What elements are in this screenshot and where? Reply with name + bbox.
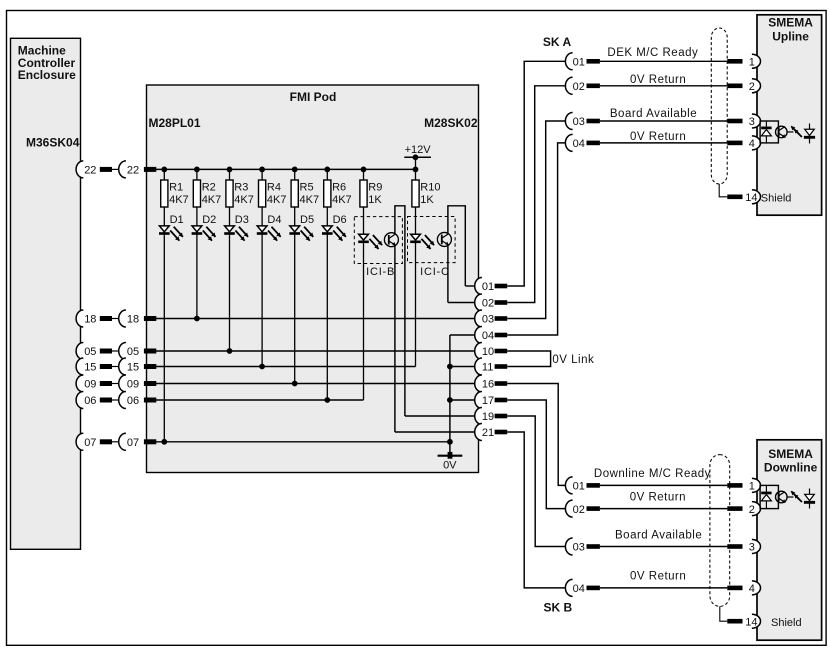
svg-text:14: 14 [745,192,757,204]
svg-text:D1: D1 [170,214,184,226]
svg-text:Upline: Upline [772,30,809,44]
svg-text:D4: D4 [267,214,281,226]
svg-text:R4: R4 [267,181,281,193]
svg-text:07: 07 [84,437,96,449]
svg-text:0V Return: 0V Return [630,491,686,503]
svg-text:SK A: SK A [543,35,572,49]
svg-text:07: 07 [127,437,139,449]
svg-text:R1: R1 [169,181,183,193]
svg-text:04: 04 [573,138,585,150]
svg-text:14: 14 [745,616,757,628]
svg-text:05: 05 [84,346,96,358]
svg-text:M36SK04: M36SK04 [26,135,80,149]
svg-text:4K7: 4K7 [267,194,287,206]
svg-text:0V: 0V [443,460,457,472]
svg-text:0V Link: 0V Link [552,354,594,366]
svg-text:09: 09 [84,379,96,391]
svg-text:D2: D2 [202,214,216,226]
svg-text:+12V: +12V [405,144,432,156]
svg-text:SMEMA: SMEMA [768,16,813,30]
svg-text:R3: R3 [234,181,248,193]
svg-text:3: 3 [749,116,755,128]
svg-text:03: 03 [573,116,585,128]
svg-text:01: 01 [482,281,494,293]
svg-text:02: 02 [573,504,585,516]
svg-text:22: 22 [127,165,139,177]
svg-text:05: 05 [127,346,139,358]
svg-text:M28SK02: M28SK02 [424,116,478,130]
svg-text:ICI-B: ICI-B [366,266,395,278]
svg-text:09: 09 [127,379,139,391]
svg-text:04: 04 [573,583,585,595]
svg-text:R5: R5 [300,181,314,193]
svg-text:DEK M/C Ready: DEK M/C Ready [607,47,698,59]
svg-text:2: 2 [749,504,755,516]
svg-text:D3: D3 [235,214,249,226]
svg-text:11: 11 [482,362,493,374]
svg-text:15: 15 [84,362,96,374]
svg-text:Shield: Shield [761,192,792,204]
svg-text:03: 03 [482,314,494,326]
svg-text:01: 01 [573,57,585,69]
svg-text:10: 10 [482,346,494,358]
svg-text:1: 1 [749,481,755,493]
svg-text:Board Available: Board Available [610,108,697,120]
svg-text:1: 1 [749,57,755,69]
svg-text:0V Return: 0V Return [630,571,686,583]
svg-text:01: 01 [573,481,585,493]
svg-text:R10: R10 [420,181,440,193]
svg-text:SMEMA: SMEMA [768,447,813,461]
svg-text:R2: R2 [202,181,216,193]
svg-text:06: 06 [84,395,96,407]
svg-text:1K: 1K [420,194,434,206]
svg-text:0V Return: 0V Return [630,74,686,86]
svg-text:06: 06 [127,395,139,407]
svg-text:21: 21 [482,427,494,439]
svg-text:15: 15 [127,362,139,374]
svg-text:2: 2 [749,81,755,93]
svg-text:04: 04 [482,330,494,342]
svg-text:16: 16 [482,379,494,391]
svg-text:4K7: 4K7 [234,194,254,206]
svg-text:1K: 1K [368,194,382,206]
svg-text:Downline: Downline [764,460,818,474]
svg-text:Enclosure: Enclosure [18,68,76,82]
svg-text:17: 17 [482,395,494,407]
svg-text:SK B: SK B [544,601,573,615]
svg-text:02: 02 [482,298,494,310]
svg-text:18: 18 [84,314,96,326]
svg-text:Shield: Shield [771,617,802,629]
svg-text:4: 4 [749,583,755,595]
svg-text:4K7: 4K7 [332,194,352,206]
svg-text:Downline M/C Ready: Downline M/C Ready [594,468,711,480]
svg-text:4K7: 4K7 [169,194,189,206]
svg-text:0V Return: 0V Return [630,131,686,143]
svg-text:M28PL01: M28PL01 [149,116,201,130]
svg-text:3: 3 [749,542,755,554]
svg-text:R6: R6 [332,181,346,193]
svg-text:4K7: 4K7 [202,194,222,206]
svg-text:FMI Pod: FMI Pod [290,90,337,104]
svg-text:4: 4 [749,138,755,150]
svg-text:Board Available: Board Available [615,530,702,542]
svg-text:ICI-C: ICI-C [420,266,450,278]
svg-text:18: 18 [127,314,139,326]
svg-text:R9: R9 [368,181,382,193]
svg-text:D6: D6 [333,214,347,226]
svg-text:D5: D5 [300,214,314,226]
svg-text:4K7: 4K7 [300,194,320,206]
svg-text:02: 02 [573,81,585,93]
svg-text:19: 19 [482,411,494,423]
svg-text:03: 03 [573,542,585,554]
svg-text:22: 22 [84,165,96,177]
